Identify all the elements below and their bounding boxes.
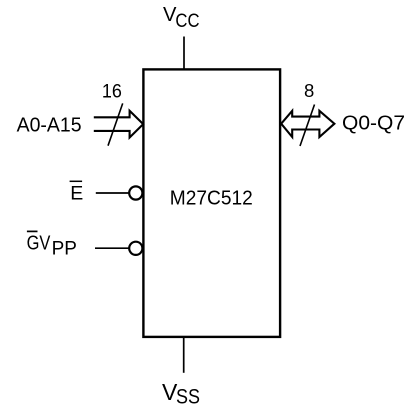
svg-text:A0-A15: A0-A15: [17, 114, 82, 137]
svg-text:PP: PP: [52, 237, 77, 259]
svg-text:E: E: [70, 183, 83, 205]
inversion bubble on E: [129, 186, 142, 199]
wire G VPP: [95, 247, 130, 249]
label G-bar VPP: [27, 230, 38, 232]
wire E: [96, 192, 130, 194]
bus arrow A0-A15: [94, 111, 143, 138]
svg-text:SS: SS: [176, 384, 200, 405]
svg-text:M27C512: M27C512: [170, 187, 253, 209]
svg-text:Q0-Q7: Q0-Q7: [342, 113, 405, 135]
wire VSS: [183, 338, 185, 373]
svg-text:GV: GV: [27, 233, 51, 255]
svg-text:16: 16: [102, 81, 122, 102]
svg-text:8: 8: [304, 80, 314, 101]
bus width slash 16: [108, 103, 123, 145]
inversion bubble on G: [129, 242, 142, 255]
chip body U1 M27C512: [143, 69, 280, 337]
label E with overline: [70, 180, 83, 182]
bus width slash 8: [300, 105, 315, 147]
svg-text:CC: CC: [175, 10, 199, 32]
wire VCC: [183, 37, 185, 70]
bidirectional bus arrow Q0-Q7: [281, 111, 334, 137]
